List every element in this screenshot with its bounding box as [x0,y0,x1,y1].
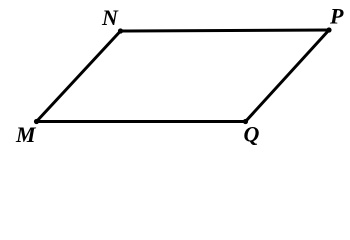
svg-text:Q: Q [244,122,260,147]
vertex M [34,119,39,124]
side QM [37,120,246,123]
svg-text:M: M [15,122,37,147]
side PQ [246,30,330,122]
side MN [37,31,121,122]
svg-text:N: N [101,5,119,30]
vertex Q [243,119,248,124]
vertex P [326,27,331,32]
side NP [121,30,330,31]
vertex N [118,28,123,33]
svg-text:P: P [329,3,344,28]
